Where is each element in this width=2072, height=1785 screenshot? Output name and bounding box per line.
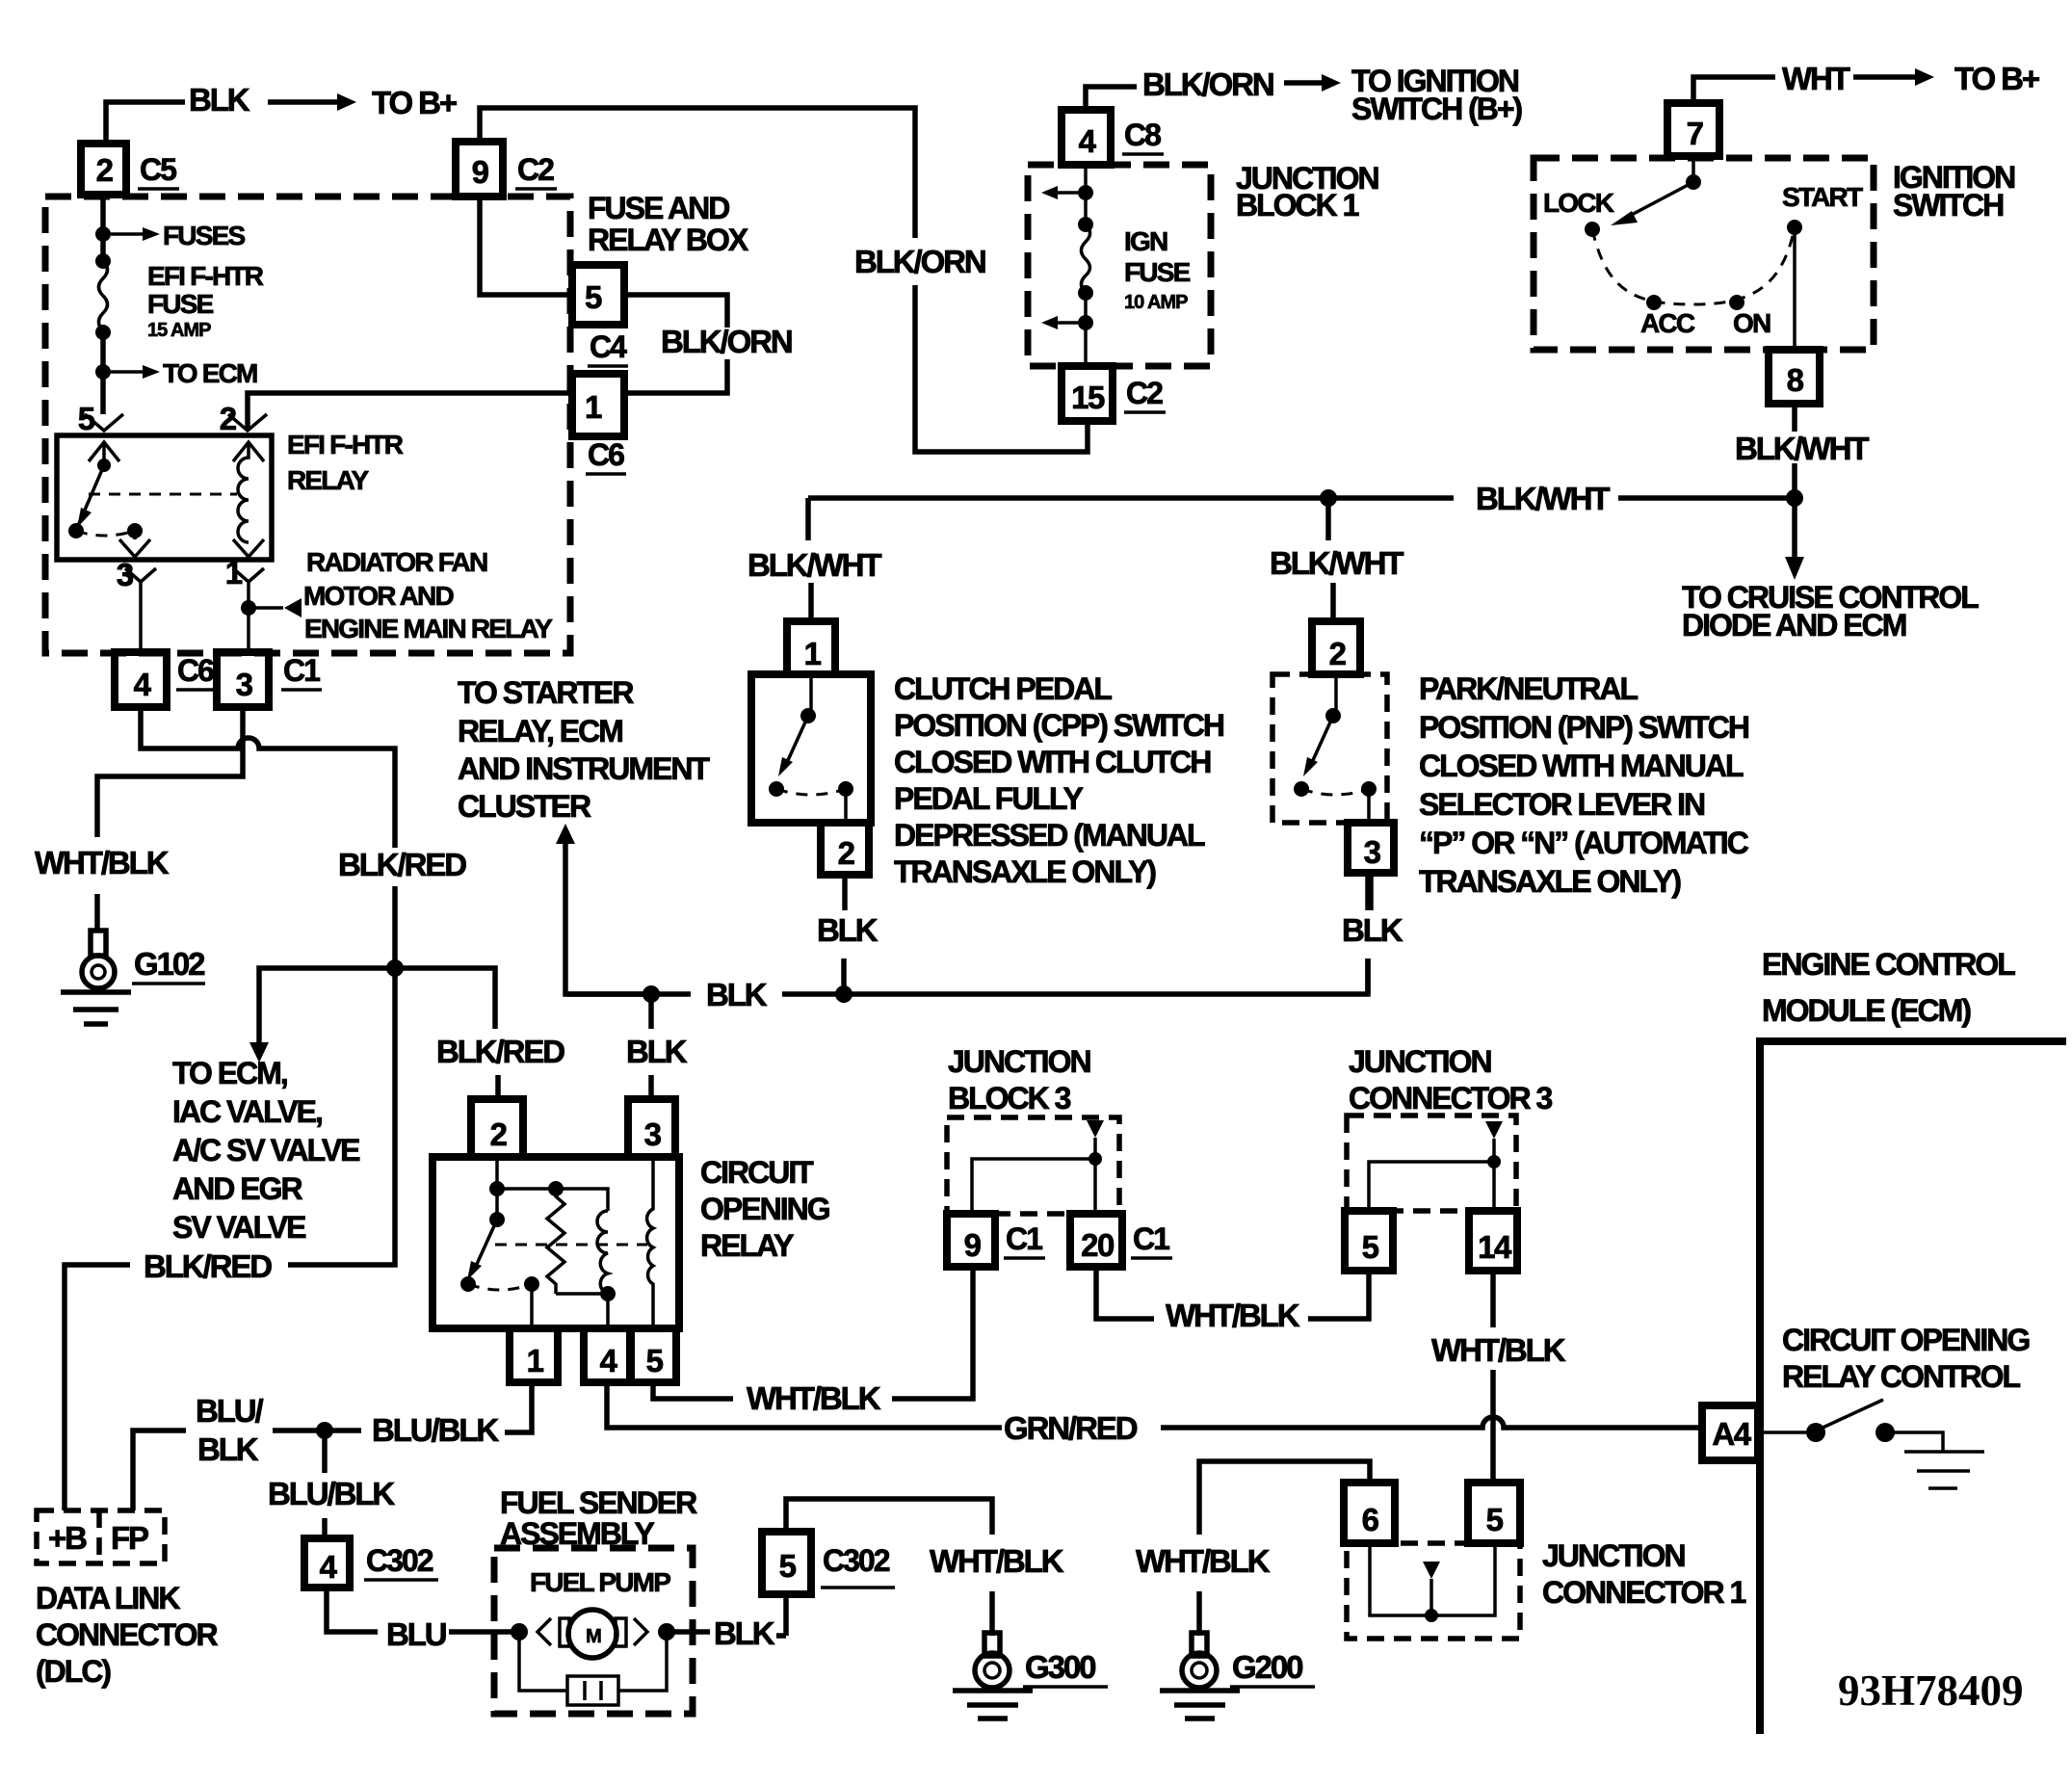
svg-text:PARK/NEUTRAL: PARK/NEUTRAL — [1419, 671, 1639, 706]
svg-text:2: 2 — [1329, 636, 1347, 671]
svg-text:DIODE AND ECM: DIODE AND ECM — [1682, 608, 1906, 643]
svg-text:5: 5 — [1362, 1229, 1379, 1265]
junction connector 3 internal triangle — [1485, 1121, 1503, 1139]
wire arrow to cruise control diode — [1792, 498, 1797, 557]
svg-text:BLU/BLK: BLU/BLK — [372, 1412, 499, 1448]
svg-text:93H78409: 93H78409 — [1838, 1667, 2024, 1715]
ignition rotor arm toward LOCK — [1626, 182, 1693, 218]
ECM internal switch to ground — [1761, 1431, 1807, 1434]
svg-text:M: M — [586, 1626, 601, 1647]
connector 8 ignition switch — [1769, 350, 1820, 404]
svg-text:JUNCTION: JUNCTION — [1349, 1044, 1491, 1079]
node BLK/WHT at PNP branch — [1320, 489, 1337, 507]
svg-text:ENGINE MAIN RELAY: ENGINE MAIN RELAY — [304, 614, 553, 643]
svg-text:BLK/RED: BLK/RED — [144, 1248, 272, 1284]
svg-text:SV VALVE: SV VALVE — [172, 1210, 306, 1245]
wire arrow to B+ (right) — [1853, 74, 1915, 80]
svg-text:DEPRESSED (MANUAL: DEPRESSED (MANUAL — [894, 818, 1205, 853]
connector 7 ignition switch — [1667, 103, 1719, 156]
svg-text:C8: C8 — [1124, 118, 1161, 152]
svg-text:CLUSTER: CLUSTER — [458, 789, 591, 824]
fuel sender bypass branch — [519, 1632, 667, 1691]
connector 1 C6 — [572, 374, 624, 436]
svg-text:SELECTOR LEVER IN: SELECTOR LEVER IN — [1419, 787, 1704, 822]
connector 5 circuit opening relay — [631, 1328, 676, 1382]
svg-text:BLK: BLK — [706, 977, 768, 1012]
IGN fuse wire top — [1084, 165, 1088, 224]
svg-text:IAC VALVE,: IAC VALVE, — [172, 1094, 322, 1129]
connector 3 circuit opening relay — [628, 1099, 675, 1157]
svg-text:1: 1 — [585, 389, 602, 425]
svg-text:ON: ON — [1733, 308, 1770, 338]
connector 9 C2 — [456, 142, 503, 197]
svg-text:14: 14 — [1478, 1229, 1512, 1265]
wire arrow to B+ — [268, 99, 337, 105]
svg-text:9: 9 — [472, 154, 489, 190]
svg-text:C1: C1 — [1006, 1221, 1042, 1256]
svg-text:15 AMP: 15 AMP — [147, 320, 211, 341]
svg-text:5: 5 — [78, 401, 95, 436]
node fuses tap — [95, 226, 111, 242]
connector 20 C1 — [1070, 1214, 1122, 1267]
connector 4 C302 — [304, 1538, 350, 1588]
svg-text:4: 4 — [320, 1549, 338, 1585]
node BLK/RED junction — [386, 959, 404, 977]
svg-text:BLK/WHT: BLK/WHT — [1735, 431, 1869, 466]
svg-text:CLOSED WITH MANUAL: CLOSED WITH MANUAL — [1419, 748, 1744, 783]
connector 5 C4 — [572, 265, 624, 325]
svg-text:RELAY, ECM: RELAY, ECM — [458, 714, 622, 748]
relay switch contact — [495, 1189, 499, 1220]
connector 1 circuit opening relay — [510, 1328, 558, 1382]
svg-text:BLOCK 1: BLOCK 1 — [1236, 188, 1359, 223]
node fuel pump left — [511, 1623, 528, 1641]
svg-text:5: 5 — [1486, 1502, 1504, 1537]
connector 2 C5 — [81, 144, 126, 195]
svg-text:C6: C6 — [177, 653, 214, 688]
svg-text:RADIATOR FAN: RADIATOR FAN — [306, 547, 487, 577]
svg-text:C1: C1 — [283, 653, 320, 688]
svg-text:JUNCTION: JUNCTION — [948, 1044, 1090, 1079]
wire BLK bus — [566, 875, 1368, 994]
svg-text:+B: +B — [48, 1520, 87, 1556]
wire BLK to connector5 C302 — [776, 1594, 786, 1636]
node START — [1787, 220, 1802, 235]
svg-text:EFI F-HTR: EFI F-HTR — [147, 261, 264, 291]
CPP switch box — [751, 674, 871, 823]
svg-text:3: 3 — [1364, 834, 1381, 870]
svg-text:9: 9 — [964, 1227, 982, 1263]
svg-text:BLU/BLK: BLU/BLK — [268, 1476, 395, 1511]
node fuse bottom — [95, 325, 111, 340]
wire connector20 to junction connector3 (WHT/BLK) — [1096, 1267, 1369, 1319]
svg-text:FUSE: FUSE — [1124, 257, 1191, 287]
connector 5 junction connector 1 — [1468, 1483, 1520, 1543]
wire connector5 to connector1 C6 — [624, 295, 727, 393]
node BLK at relay pin3 branch — [643, 985, 660, 1003]
wire DLC FP to BLU/BLK node — [133, 1431, 186, 1510]
wire from pin 2 down — [100, 195, 106, 261]
node TO ECM tap — [95, 364, 111, 380]
ignition detent dashed arc — [1592, 227, 1795, 304]
svg-text:1: 1 — [527, 1343, 544, 1378]
wire BLK down to relay pin 3 — [648, 994, 654, 1099]
ground G102 (bolt symbol) — [91, 931, 106, 956]
ground (ECM internal) — [1904, 1452, 1984, 1488]
fuel sender element box — [567, 1676, 618, 1705]
svg-text:WHT/BLK: WHT/BLK — [1166, 1298, 1300, 1333]
svg-text:10 AMP: 10 AMP — [1124, 292, 1188, 313]
relay EFI F-HTR (box) — [57, 435, 272, 560]
svg-text:CIRCUIT: CIRCUIT — [700, 1155, 814, 1190]
relay throw dashed arc — [76, 531, 135, 536]
svg-text:G200: G200 — [1232, 1649, 1302, 1685]
wire arrow up to starter relay — [565, 840, 651, 994]
node radiator fan tap — [241, 600, 256, 616]
svg-text:GRN/RED: GRN/RED — [1004, 1410, 1138, 1446]
svg-text:ASSEMBLY: ASSEMBLY — [500, 1516, 655, 1551]
svg-text:TO B+: TO B+ — [1954, 61, 2039, 96]
svg-text:FP: FP — [111, 1520, 148, 1556]
svg-text:4: 4 — [134, 667, 152, 702]
svg-text:4: 4 — [600, 1343, 618, 1378]
wire pin2 to connector 1 C6 — [248, 393, 572, 431]
svg-text:LOCK: LOCK — [1543, 188, 1614, 218]
fuel sender assembly dashed box — [494, 1548, 693, 1714]
svg-text:3: 3 — [236, 667, 253, 702]
svg-text:4: 4 — [1079, 123, 1097, 159]
svg-text:2: 2 — [838, 835, 855, 871]
svg-text:5: 5 — [585, 279, 602, 315]
svg-text:BLK/ORN: BLK/ORN — [1142, 66, 1273, 102]
svg-text:AND INSTRUMENT: AND INSTRUMENT — [458, 751, 710, 786]
PNP switch dashed box — [1272, 674, 1387, 823]
wire G200 to junction connector 1 (WHT/BLK) — [1199, 1461, 1370, 1636]
svg-text:5: 5 — [779, 1548, 797, 1584]
svg-text:SWITCH: SWITCH — [1893, 188, 2003, 223]
svg-text:POSITION (PNP) SWITCH: POSITION (PNP) SWITCH — [1419, 710, 1748, 745]
svg-text:BLU/: BLU/ — [196, 1393, 264, 1429]
ground G200 (bolt symbol) — [1192, 1633, 1207, 1656]
wire START to pin 8 — [1793, 227, 1797, 350]
PNP throw dashed arc — [1301, 789, 1369, 795]
junction connector 1 internal triangle — [1423, 1562, 1440, 1579]
fuse IGN FUSE 10 AMP (wavy element) — [1078, 217, 1093, 232]
relay contact to pin 3 (arrow down) — [119, 531, 150, 557]
svg-text:POSITION (CPP) SWITCH: POSITION (CPP) SWITCH — [894, 708, 1223, 743]
svg-text:START: START — [1782, 182, 1863, 212]
connector 2 CPP switch — [821, 823, 869, 875]
svg-text:TO ECM,: TO ECM, — [172, 1056, 287, 1090]
svg-text:A/C SV VALVE: A/C SV VALVE — [172, 1133, 360, 1168]
arrowhead to B+ — [337, 93, 356, 111]
svg-text:BLK/RED: BLK/RED — [436, 1034, 564, 1069]
svg-text:BLK/WHT: BLK/WHT — [1270, 545, 1403, 581]
svg-text:A4: A4 — [1712, 1416, 1751, 1452]
svg-text:ENGINE CONTROL: ENGINE CONTROL — [1762, 947, 2015, 982]
svg-text:CONNECTOR 1: CONNECTOR 1 — [1542, 1575, 1746, 1610]
svg-text:RELAY CONTROL: RELAY CONTROL — [1782, 1359, 2020, 1394]
wire PNP pin3 to BLK node — [1368, 873, 1371, 994]
junction connector 1 dashed box — [1347, 1543, 1520, 1639]
svg-text:TRANSAXLE ONLY): TRANSAXLE ONLY) — [1419, 864, 1681, 899]
wire BLK/WHT main horizontal — [808, 495, 1795, 501]
CPP throw dashed arc — [776, 789, 846, 795]
node BLK at CPP branch — [835, 985, 852, 1003]
junction block 3 dashed box — [947, 1117, 1119, 1214]
svg-text:ACC: ACC — [1640, 308, 1695, 338]
wire WHT to B+ — [1693, 77, 1775, 103]
wire fuel pump right to BLK — [667, 1629, 710, 1635]
svg-text:CLUTCH PEDAL: CLUTCH PEDAL — [894, 671, 1112, 706]
svg-text:IGN: IGN — [1124, 226, 1167, 256]
svg-text:FUSE AND: FUSE AND — [588, 191, 729, 225]
wire BLU/BLK node down to connector4 C302 — [322, 1431, 328, 1538]
svg-text:WHT/BLK: WHT/BLK — [35, 845, 170, 880]
circuit opening relay box — [433, 1157, 679, 1328]
svg-text:CIRCUIT OPENING: CIRCUIT OPENING — [1782, 1323, 2029, 1357]
wire BLK/WHT down to CPP switch — [808, 498, 811, 621]
connector 4 C6 — [115, 652, 167, 707]
relay contact arm (arrow up) — [89, 442, 119, 465]
svg-text:BLK/WHT: BLK/WHT — [1476, 481, 1610, 516]
wire arrow to ignition switch — [1284, 80, 1322, 86]
relay coil — [238, 442, 249, 542]
wire connector3 to G102 — [97, 707, 243, 931]
relay coil 3 — [647, 1157, 653, 1328]
junction connector 3 dashed box — [1347, 1116, 1516, 1211]
svg-text:C4: C4 — [590, 329, 627, 364]
svg-text:SWITCH (B+): SWITCH (B+) — [1351, 92, 1523, 126]
junction block 1 dashed box — [1028, 165, 1211, 366]
wire BLK/RED right branch to relay pin 2 — [395, 968, 498, 1099]
svg-text:2: 2 — [96, 152, 114, 188]
svg-text:RELAY: RELAY — [700, 1228, 794, 1263]
node ON — [1729, 295, 1744, 310]
svg-text:MODULE (ECM): MODULE (ECM) — [1762, 993, 1971, 1028]
svg-text:3: 3 — [644, 1116, 662, 1152]
svg-text:AND EGR: AND EGR — [172, 1171, 302, 1206]
ground G300 (bolt symbol) — [984, 1633, 1000, 1656]
fuel pump motor M — [538, 1618, 551, 1645]
svg-text:MOTOR AND: MOTOR AND — [303, 581, 454, 611]
relay internal dashed link — [89, 493, 237, 496]
switch blade — [1821, 1400, 1883, 1429]
svg-text:6: 6 — [1362, 1502, 1379, 1537]
wire pin7 into switch — [1692, 156, 1695, 182]
ECM boundary line — [1760, 1041, 2066, 1734]
fuse EFI F-HTR FUSE 15 AMP (wavy element) — [99, 261, 108, 331]
wire BLK to B+ (top left) — [106, 102, 185, 144]
svg-text:CLOSED WITH CLUTCH: CLOSED WITH CLUTCH — [894, 745, 1210, 779]
svg-text:BLK: BLK — [626, 1034, 688, 1069]
wire GRN/RED relay pin4 to ECM A4 — [607, 1382, 1702, 1428]
svg-text:BLK: BLK — [1342, 912, 1403, 948]
connector 5 junction connector 3 — [1345, 1211, 1393, 1271]
node fuel pump right — [658, 1623, 675, 1641]
svg-text:BLK: BLK — [189, 82, 250, 118]
svg-text:C6: C6 — [588, 437, 624, 472]
svg-text:WHT/BLK: WHT/BLK — [1136, 1543, 1271, 1579]
relay throw dashed arc — [468, 1284, 532, 1290]
wire fuse bottom to connector 15 — [1084, 293, 1088, 366]
wire relay pin5 to connector9 C1 (WHT/BLK) — [653, 1267, 973, 1399]
svg-text:“P” OR “N” (AUTOMATIC: “P” OR “N” (AUTOMATIC — [1419, 826, 1749, 860]
fuse and relay box dashed border — [45, 197, 570, 653]
node LOCK — [1585, 222, 1600, 237]
svg-text:1: 1 — [804, 636, 822, 671]
connector A4 ECM — [1702, 1405, 1758, 1460]
svg-text:G300: G300 — [1025, 1649, 1095, 1685]
svg-text:FUEL PUMP: FUEL PUMP — [530, 1567, 670, 1597]
wire fuse to relay pin 5 — [100, 332, 106, 414]
svg-text:BLK: BLK — [197, 1431, 259, 1467]
svg-text:C2: C2 — [517, 152, 554, 187]
svg-text:RELAY BOX: RELAY BOX — [588, 223, 749, 257]
svg-text:C2: C2 — [1126, 376, 1163, 410]
svg-text:TO STARTER: TO STARTER — [458, 675, 634, 710]
svg-text:DATA LINK: DATA LINK — [36, 1581, 180, 1615]
svg-text:WHT/BLK: WHT/BLK — [930, 1543, 1064, 1579]
svg-text:C5: C5 — [140, 152, 176, 187]
connector 4 C8 — [1062, 110, 1111, 165]
connector 3 PNP switch — [1348, 823, 1394, 873]
wire connector4 to BLK/RED (hops over connector3 wire) — [141, 707, 395, 968]
svg-text:8: 8 — [1787, 362, 1804, 398]
svg-text:TO B+: TO B+ — [372, 85, 457, 120]
svg-text:C302: C302 — [366, 1543, 433, 1578]
svg-text:5: 5 — [646, 1343, 664, 1378]
svg-text:G102: G102 — [134, 946, 205, 982]
junction block 3 internal triangle — [1087, 1120, 1104, 1138]
connector 2 PNP switch — [1312, 621, 1360, 674]
svg-text:TO ECM: TO ECM — [163, 358, 257, 388]
svg-text:PEDAL FULLY: PEDAL FULLY — [894, 781, 1084, 816]
connector 4 circuit opening relay — [584, 1328, 630, 1382]
wire connector14 down (WHT/BLK to junction connector 1) — [1490, 1271, 1496, 1483]
wire connector9 to connector5 C4 — [480, 197, 572, 295]
node BLK/WHT at ignition leg — [1786, 489, 1803, 507]
wire connector4 C302 to fuel pump (BLU) — [327, 1588, 511, 1632]
data link connector dashed box — [37, 1510, 165, 1563]
wire BLU/BLK horizontal — [273, 1428, 361, 1433]
connector 6 junction connector 1 — [1344, 1483, 1395, 1543]
svg-text:FUSE: FUSE — [147, 289, 214, 319]
svg-text:BLU: BLU — [386, 1616, 446, 1652]
node fuse top — [95, 253, 111, 269]
svg-text:BLK/RED: BLK/RED — [338, 847, 466, 882]
svg-text:WHT/BLK: WHT/BLK — [1431, 1332, 1566, 1368]
svg-text:7: 7 — [1687, 116, 1703, 151]
svg-text:TRANSAXLE ONLY): TRANSAXLE ONLY) — [894, 854, 1156, 889]
wire CPP pin2 to BLK node — [844, 875, 845, 994]
connector 15 C2 — [1062, 366, 1113, 421]
connector 3 C1 — [217, 652, 269, 707]
node BLU/BLK — [316, 1422, 333, 1439]
svg-text:15: 15 — [1071, 380, 1105, 415]
relay coil 1 (zigzag) — [547, 1189, 564, 1294]
wire BLK/WHT down to PNP switch — [1328, 498, 1333, 621]
svg-text:WHT/BLK: WHT/BLK — [747, 1380, 881, 1416]
ignition switch dashed box — [1534, 158, 1874, 350]
svg-text:CONNECTOR 3: CONNECTOR 3 — [1349, 1081, 1553, 1116]
relay internal top link — [497, 1157, 608, 1211]
CPP switch contact — [809, 674, 813, 716]
connector 1 CPP switch — [787, 621, 835, 674]
node ignition common — [1686, 174, 1701, 190]
svg-text:20: 20 — [1081, 1227, 1114, 1263]
svg-text:BLK/ORN: BLK/ORN — [854, 244, 985, 279]
svg-text:CONNECTOR: CONNECTOR — [36, 1617, 219, 1652]
wire connector5 C302 to G300 (WHT/BLK) — [786, 1499, 992, 1636]
svg-text:BLK/ORN: BLK/ORN — [661, 324, 792, 359]
svg-text:BLOCK 3: BLOCK 3 — [948, 1081, 1071, 1116]
svg-text:FUSES: FUSES — [163, 221, 245, 250]
relay coil 2 — [597, 1211, 608, 1294]
connector 14 junction connector 3 — [1469, 1211, 1517, 1271]
wire connector9 to BLK/ORN vertical — [480, 108, 1088, 452]
svg-text:BLK: BLK — [714, 1615, 775, 1651]
svg-text:BLK/WHT: BLK/WHT — [747, 547, 881, 583]
wire relay pin1 to BLU/BLK — [505, 1382, 532, 1432]
svg-text:JUNCTION: JUNCTION — [1542, 1538, 1685, 1573]
svg-text:(DLC): (DLC) — [36, 1654, 111, 1689]
connector 2 circuit opening relay — [471, 1099, 523, 1157]
svg-text:WHT: WHT — [1782, 61, 1850, 96]
node with arrow (bottom tap) — [1078, 315, 1093, 330]
svg-text:BLK: BLK — [817, 912, 879, 948]
node with arrow (top tap) — [1078, 185, 1093, 200]
wire BLK/RED left branch with down arrow — [259, 968, 395, 1042]
connector 9 C1 — [947, 1214, 995, 1267]
relay internal dashed link — [495, 1244, 647, 1247]
wire C8 to BLK/ORN ignition feed — [1086, 87, 1137, 110]
node ACC — [1646, 295, 1662, 310]
connector 5 C302 — [762, 1532, 811, 1594]
svg-text:C302: C302 — [823, 1543, 890, 1578]
svg-text:RELAY: RELAY — [287, 465, 369, 495]
PNP switch contact — [1334, 674, 1338, 716]
svg-text:OPENING: OPENING — [700, 1192, 829, 1226]
svg-text:C1: C1 — [1133, 1221, 1169, 1256]
relay movable contact — [77, 465, 104, 528]
wire pin 8 down — [1792, 404, 1797, 498]
wire BLK/RED down to DLC — [65, 968, 395, 1510]
svg-text:FUEL SENDER: FUEL SENDER — [500, 1485, 697, 1520]
svg-text:2: 2 — [490, 1116, 508, 1152]
svg-text:EFI F-HTR: EFI F-HTR — [287, 430, 404, 459]
